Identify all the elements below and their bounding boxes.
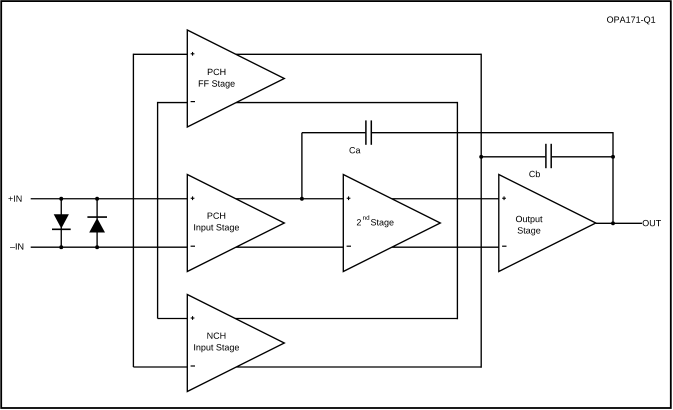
capacitor Cb xyxy=(546,144,551,168)
pin + of PCH Input Stage xyxy=(191,196,195,200)
junction dot PCH output / Ca tap xyxy=(300,197,304,201)
label NCH Input Stage xyxy=(194,333,239,353)
wire: diode D1 branch vertical (x=61.25) xyxy=(60,199,62,247)
net label OUT xyxy=(643,220,661,226)
wire: net A bottom row (NCH stage - input, y=367) xyxy=(133,366,481,368)
junction dot -IN/D1 xyxy=(59,245,63,249)
junction dot OUT node xyxy=(611,221,615,225)
op-amp PCH Input Stage xyxy=(187,175,284,272)
junction dot +IN/D1 xyxy=(59,197,63,201)
label Ca xyxy=(350,147,361,153)
wire: net A left vertical (x=133.4) xyxy=(132,54,134,367)
wire: net B bottom row (NCH stage + input, y=318.5) xyxy=(158,318,458,320)
pin + of Output Stage xyxy=(502,196,506,200)
op-amp NCH Input Stage xyxy=(187,295,284,392)
wire: diode D2 branch vertical (x=97.1) xyxy=(96,199,98,247)
op-amp 2nd Stage xyxy=(343,175,440,272)
wire: Cb row right segment (y=156.8) xyxy=(552,156,613,158)
junction dot -IN/D2 xyxy=(95,245,99,249)
op-amp Output Stage xyxy=(499,175,596,272)
junction dot Cb right / right vertical xyxy=(611,155,615,159)
wire: +IN row to output stage + input (y=198.75) xyxy=(31,198,499,200)
wire: net B top row (FF stage - input, y=102.6) xyxy=(158,102,458,104)
pin + of 2nd Stage xyxy=(347,196,351,200)
op-amp PCH FF Stage xyxy=(187,30,284,127)
part label OPA171-Q1 xyxy=(607,16,655,24)
wire: Ca row right segment (y=132.7) xyxy=(372,132,613,134)
diode D1 (anode on +IN row, cathode on -IN row) xyxy=(52,214,71,229)
label Cb xyxy=(529,171,540,178)
wire: Ca row left segment (y=132.7) xyxy=(302,132,366,134)
wire: net B right vertical (x=457.4) xyxy=(456,102,458,319)
diode D2 (cathode on +IN row, anode on -IN row) xyxy=(87,217,107,232)
junction dot Cb left / net A vertical xyxy=(479,155,483,159)
pin - of PCH Input Stage xyxy=(191,245,195,247)
pin - of 2nd Stage xyxy=(347,245,351,247)
wire: -IN row to output stage - input (y=247.2) xyxy=(31,246,499,248)
wire: OUT lead (y=223.3) xyxy=(596,222,642,224)
label Output Stage xyxy=(516,216,543,236)
wire: right vertical Ca/Cb/OUT junction (x=613) xyxy=(612,132,614,223)
wire: net A right vertical (x=481.2) xyxy=(480,54,482,368)
junction dot +IN/D2 xyxy=(95,197,99,201)
net label -IN xyxy=(10,243,23,249)
wire: Ca left vertical tap (x=301.9) xyxy=(301,133,303,199)
pin + of NCH Input Stage xyxy=(191,316,195,320)
capacitor Ca xyxy=(366,120,371,144)
net label +IN xyxy=(8,196,21,202)
pin - of Output Stage xyxy=(502,245,506,247)
label PCH FF Stage xyxy=(199,69,235,89)
pin + of PCH FF Stage xyxy=(191,52,195,56)
wire: net A top row (FF stage + input, y=54.3) xyxy=(133,53,481,55)
wire: net B left vertical (x=157.6) xyxy=(157,102,159,319)
label PCH Input Stage xyxy=(194,213,239,233)
pin - of PCH FF Stage xyxy=(191,101,195,103)
wire: Cb row left segment (y=156.8) xyxy=(481,156,545,158)
pin - of NCH Input Stage xyxy=(191,365,195,367)
label 2nd Stage xyxy=(357,215,394,227)
